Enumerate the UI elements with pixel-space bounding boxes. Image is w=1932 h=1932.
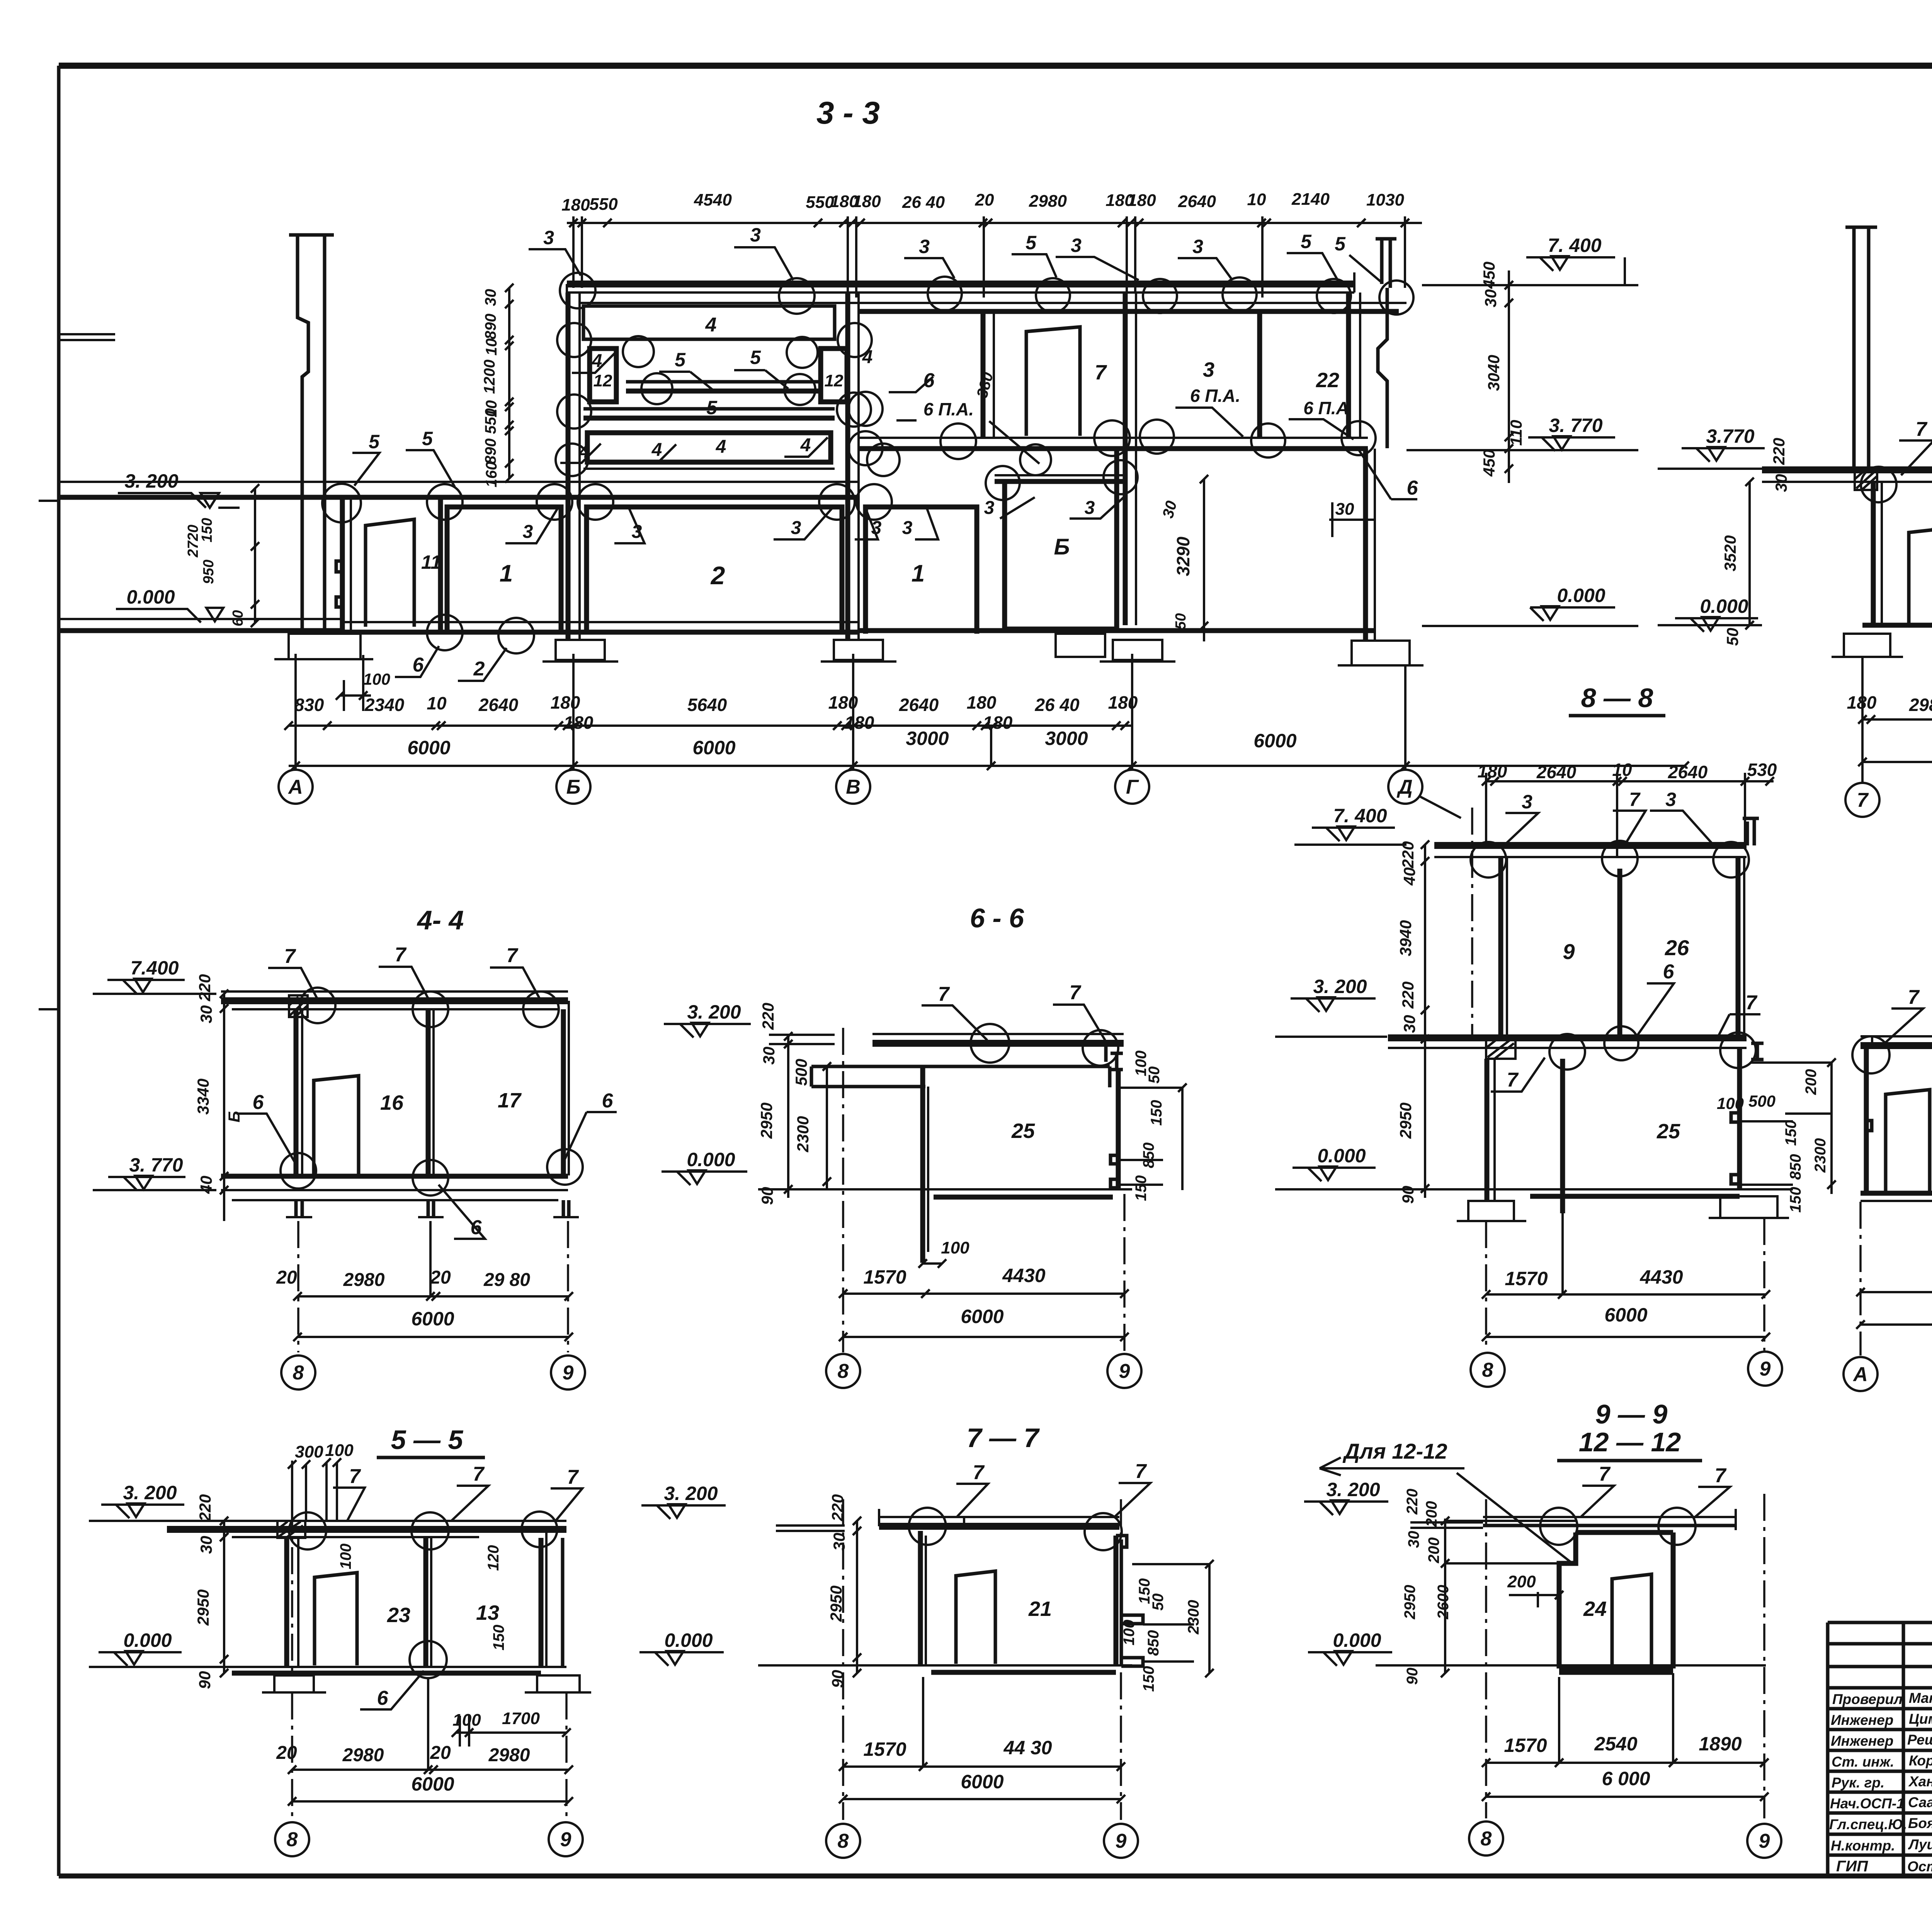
top slab [221,990,568,993]
room B walls [1005,449,1117,629]
svg-text:3000: 3000 [1045,728,1088,749]
right wall top step [1116,1536,1127,1561]
axis lines [1861,985,1932,1355]
floor line [167,1666,566,1668]
svg-text:20: 20 [276,1267,297,1288]
svg-text:30: 30 [1400,1015,1418,1033]
svg-text:25: 25 [1656,1120,1680,1143]
7 leader labels [1908,983,1932,1009]
svg-text:8: 8 [838,1360,849,1383]
svg-text:450: 450 [1480,449,1498,477]
svg-text:2: 2 [710,561,725,590]
svg-text:Б: Б [1054,534,1070,560]
floor [1861,1191,1932,1196]
svg-text:3940: 3940 [1396,920,1415,956]
svg-text:4- 4: 4- 4 [417,905,464,935]
svg-text:Инженер: Инженер [1831,1712,1893,1728]
B axis column [566,293,571,640]
svg-text:20: 20 [430,1743,451,1763]
footing 8 [1457,1201,1526,1221]
svg-text:ГИП: ГИП [1836,1858,1868,1875]
svg-text:5: 5 [750,347,761,368]
svg-text:7: 7 [1916,418,1928,440]
svg-text:90: 90 [1404,1668,1421,1685]
svg-text:2600: 2600 [1435,1585,1452,1620]
svg-text:90: 90 [758,1187,776,1205]
svg-text:7: 7 [567,1466,579,1488]
axis lines [292,1692,566,1820]
axis circles 8 9 [281,1355,585,1389]
left dim stack lower [1745,478,1754,629]
beam ledge [811,1043,1110,1087]
svg-text:6000: 6000 [961,1771,1003,1793]
wall between 11 and 1 [438,497,443,631]
room 25 left wall [920,1066,925,1263]
door room 16 [314,1076,359,1174]
svg-text:100: 100 [325,1441,354,1460]
top dim extension lines [573,216,1405,298]
bottom dim row 1 line [289,724,1132,727]
left dim stack [784,1032,831,1198]
svg-text:6: 6 [602,1090,614,1112]
floor slab [221,1174,568,1179]
svg-text:Саакьянц: Саакьянц [1908,1794,1932,1810]
3.770 slab right part [860,437,1368,439]
column stubs below floor [296,1200,569,1216]
wall left of room 7 [981,311,986,437]
svg-text:Коротенко: Коротенко [1909,1753,1932,1769]
svg-text:Луценко: Луценко [1908,1837,1932,1852]
svg-text:7: 7 [473,1463,485,1485]
top slab [872,1033,1124,1035]
svg-text:3: 3 [1522,791,1532,813]
top dim ticks [569,219,1409,227]
svg-text:29 80: 29 80 [483,1270,530,1290]
svg-text:1: 1 [500,560,513,587]
slab circles [971,1024,1118,1066]
vertical dim 3290 [1200,475,1208,641]
plank 5 lower [583,407,835,411]
axis circles 8 9 [826,1354,1141,1388]
svg-text:Инженер: Инженер [1831,1733,1893,1749]
svg-text:4: 4 [705,314,717,336]
slab circles [909,1508,1122,1550]
svg-text:0.000: 0.000 [1557,585,1605,606]
svg-text:850: 850 [1145,1630,1162,1656]
svg-text:7: 7 [938,983,950,1005]
svg-text:180: 180 [852,192,881,211]
svg-text:3. 200: 3. 200 [1313,976,1367,997]
svg-text:26 40: 26 40 [902,193,945,212]
hatched block [289,995,308,1017]
svg-text:6 - 6: 6 - 6 [970,903,1024,933]
footing room B right [1056,634,1105,657]
door room 23 [315,1573,357,1665]
svg-text:24: 24 [1583,1597,1607,1621]
slab circles [1549,1026,1756,1070]
svg-text:Макарова: Макарова [1909,1690,1932,1706]
svg-text:2980: 2980 [488,1745,530,1765]
lower rooms walls [1871,482,1876,625]
rooms walls [291,1461,293,1673]
svg-text:6000: 6000 [411,1308,454,1330]
partition box room 2 [587,507,842,634]
3 7 3 labels top [1522,789,1676,813]
roof parapet right [1376,239,1396,288]
band 4 lower [587,433,831,462]
fold mark left lower [39,1008,59,1010]
svg-text:3290: 3290 [1173,536,1193,576]
svg-text:7. 400: 7. 400 [1548,235,1601,256]
svg-text:3 - 3: 3 - 3 [816,95,880,131]
svg-text:7: 7 [1599,1463,1611,1485]
hatched pier axis 8 [1486,1038,1515,1059]
svg-text:90: 90 [196,1671,214,1689]
svg-text:Б: Б [225,1111,243,1122]
slab junction circles right part [849,392,1376,465]
svg-text:2640: 2640 [1668,762,1708,782]
A exterior wall [340,497,345,630]
svg-text:3. 770: 3. 770 [129,1154,183,1176]
doors [1886,1090,1930,1192]
svg-text:30: 30 [830,1533,848,1551]
svg-text:100: 100 [1717,1094,1744,1112]
svg-text:50: 50 [1150,1594,1167,1611]
svg-text:1: 1 [912,560,925,587]
door room 21 [956,1571,995,1664]
3.200 slab [1388,1034,1747,1041]
svg-text:150: 150 [199,518,215,542]
svg-text:3: 3 [1071,235,1082,256]
0.000 floor line right part [860,628,1376,633]
left dim stack [220,990,228,1221]
svg-text:3: 3 [919,236,930,257]
12 box right [821,349,847,402]
room 25 right wall steps [1731,1113,1740,1184]
footing G [1100,640,1175,662]
svg-text:180: 180 [1128,191,1156,210]
vertical dim stack left of B axis [508,288,510,478]
G axis column upper [1123,293,1128,625]
footing D [1338,641,1423,665]
svg-text:180: 180 [967,692,997,713]
8 axis column lower [1485,1059,1490,1200]
svg-text:2140: 2140 [1291,190,1330,209]
room walls [294,1009,299,1175]
svg-text:0.000: 0.000 [126,586,175,608]
axis circles A B V [1844,1357,1932,1393]
room walls [1864,1046,1869,1192]
bottom line of band zone [583,468,835,470]
svg-text:6: 6 [1663,961,1675,983]
D axis circle above [1471,808,1473,1036]
footing A [274,634,373,659]
svg-text:3. 200: 3. 200 [124,470,178,492]
svg-text:0.000: 0.000 [1333,1629,1381,1651]
slab circles [1852,1036,1932,1083]
svg-text:В: В [846,776,861,798]
svg-text:12: 12 [825,371,844,390]
svg-text:200: 200 [1425,1537,1442,1564]
svg-text:6000: 6000 [411,1773,454,1795]
svg-text:180: 180 [561,196,590,214]
svg-text:200: 200 [1423,1501,1440,1527]
fold mark left upper [39,500,59,502]
svg-text:10: 10 [1612,760,1632,780]
svg-text:6 П.А.: 6 П.А. [923,399,974,419]
svg-text:3000: 3000 [906,728,949,749]
signature table texts [1829,1690,1932,1875]
svg-text:3: 3 [543,227,554,248]
footings [262,1675,326,1692]
tall column axis 7 [1845,227,1877,469]
svg-text:30: 30 [1335,500,1354,519]
roof detail circles [560,273,1413,315]
axis extension lines [296,654,1405,769]
top slab [1483,1516,1736,1518]
svg-text:3340: 3340 [194,1078,212,1114]
svg-text:9: 9 [1116,1830,1127,1852]
svg-text:0.000: 0.000 [1317,1145,1366,1167]
svg-text:8: 8 [293,1362,304,1384]
lower room 25 [1560,1059,1565,1213]
svg-text:2300: 2300 [1185,1600,1202,1635]
axis circles 8 9 bottom [826,1824,1138,1858]
svg-text:500: 500 [1748,1092,1776,1110]
svg-text:5: 5 [369,431,380,452]
svg-text:3040: 3040 [1485,355,1503,391]
mid slab circles [1861,467,1932,504]
top slab left stub [769,1035,835,1044]
svg-text:5 — 5: 5 — 5 [391,1425,464,1455]
svg-text:2950: 2950 [757,1102,776,1139]
svg-text:6000: 6000 [407,737,450,759]
svg-text:4430: 4430 [1002,1265,1045,1286]
svg-text:7: 7 [973,1461,985,1484]
svg-text:3: 3 [1203,358,1214,381]
svg-text:160: 160 [483,462,500,488]
svg-text:5: 5 [1301,231,1312,252]
svg-text:6000: 6000 [961,1306,1003,1327]
svg-text:5: 5 [1026,232,1037,253]
footing V [821,640,896,662]
svg-text:6 П.А.: 6 П.А. [1190,386,1240,406]
floor line [1862,623,1932,628]
svg-text:9 — 9: 9 — 9 [1595,1399,1668,1429]
svg-text:1570: 1570 [1504,1735,1547,1756]
svg-text:9: 9 [1119,1360,1130,1383]
svg-text:150: 150 [1787,1187,1804,1213]
svg-text:220: 220 [1770,438,1788,465]
hatched block [277,1521,305,1538]
svg-text:Проверил: Проверил [1832,1691,1903,1707]
svg-text:3: 3 [1665,789,1676,810]
right side step dims [1121,1615,1143,1666]
svg-text:Г: Г [1126,776,1139,798]
top dim texts [1478,760,1777,782]
floor line [758,1664,1132,1667]
slab circles [1540,1508,1696,1545]
svg-text:100: 100 [452,1711,481,1730]
svg-text:100: 100 [337,1544,354,1570]
svg-text:9: 9 [1759,1830,1770,1852]
bottom dim row 1 texts [294,692,1138,733]
svg-text:7: 7 [1135,1460,1147,1483]
svg-text:7 — 7: 7 — 7 [967,1423,1040,1453]
svg-text:1570: 1570 [863,1266,906,1288]
svg-text:21: 21 [1028,1597,1052,1621]
svg-text:180: 180 [1478,761,1507,781]
svg-text:220: 220 [759,1003,777,1030]
svg-text:3: 3 [523,522,533,542]
D exterior wall profile [1378,288,1387,448]
slab junction circles [322,484,892,522]
svg-text:850: 850 [1787,1154,1804,1180]
svg-text:Д: Д [1396,776,1413,798]
svg-text:Решетникова: Решетникова [1907,1732,1932,1748]
svg-text:550: 550 [589,195,618,214]
svg-text:3. 200: 3. 200 [1326,1479,1380,1500]
svg-text:5: 5 [422,428,433,449]
title block outer [1828,1622,1932,1876]
svg-text:А: А [1852,1363,1868,1386]
svg-text:2950: 2950 [194,1589,212,1626]
svg-text:7: 7 [1629,789,1641,810]
svg-text:850: 850 [1140,1143,1157,1168]
svg-text:9: 9 [1760,1358,1771,1380]
roof slab [1434,842,1747,849]
svg-text:40: 40 [197,1176,215,1194]
left vertical dims 2720 etc [185,518,246,626]
svg-text:10: 10 [1247,190,1266,209]
svg-text:50: 50 [1723,628,1742,646]
svg-text:200: 200 [1803,1069,1820,1095]
plank 5 upper [626,380,819,384]
svg-text:3. 200: 3. 200 [687,1001,741,1023]
leader lines for roof labels [529,247,1382,283]
svg-text:8: 8 [1481,1828,1492,1850]
wall notch dims 200 [1401,1489,1452,1685]
svg-text:530: 530 [1747,760,1777,780]
svg-text:450: 450 [1480,262,1498,289]
svg-text:2640: 2640 [478,695,519,715]
top slab [1861,1035,1932,1037]
svg-text:1200: 1200 [481,360,498,394]
7 leader labels [938,981,1082,1005]
svg-text:20: 20 [276,1743,297,1763]
door room 24 [1612,1574,1651,1667]
bottom dims row1 [1504,1733,1742,1756]
svg-text:110: 110 [1507,420,1525,446]
svg-text:8: 8 [1482,1359,1493,1381]
svg-text:120: 120 [485,1545,502,1571]
circles at room B corners [986,444,1138,500]
axis circles 8 9 [1471,1352,1782,1387]
svg-text:50: 50 [1146,1066,1163,1084]
svg-text:2980: 2980 [1029,192,1067,211]
svg-text:5: 5 [1335,233,1346,255]
floor line [758,1188,1132,1190]
svg-text:3: 3 [750,224,761,246]
svg-text:7: 7 [349,1465,361,1488]
top slab [167,1520,566,1522]
V axis column [845,293,850,640]
door room 11 [366,519,414,627]
svg-text:7.400: 7.400 [130,957,179,979]
svg-text:0.000: 0.000 [123,1629,172,1651]
svg-text:Н.контр.: Н.контр. [1831,1838,1895,1854]
svg-text:220: 220 [196,1494,214,1522]
svg-text:7: 7 [1908,986,1920,1009]
small detail circles near 12 boxes [556,323,900,476]
svg-text:2980: 2980 [1909,695,1932,715]
small rotated dims [337,1544,507,1651]
footing 7 [1832,634,1903,657]
room 21 walls [918,1531,923,1665]
svg-text:6000: 6000 [692,737,735,759]
svg-text:2980: 2980 [342,1745,384,1765]
svg-text:5: 5 [675,349,686,371]
svg-text:Осташевский: Осташевский [1907,1859,1932,1874]
svg-text:Для 12-12: Для 12-12 [1342,1439,1447,1463]
svg-text:8: 8 [838,1830,849,1852]
D axis column lower [1363,449,1368,641]
svg-text:100: 100 [941,1238,969,1257]
svg-text:А: А [287,776,303,798]
svg-text:Рук. гр.: Рук. гр. [1832,1775,1884,1791]
svg-text:17: 17 [498,1089,522,1112]
svg-text:3. 200: 3. 200 [123,1482,177,1503]
right small dims [1782,1069,1829,1213]
left tall column axis A [289,235,334,634]
svg-text:950: 950 [201,560,217,584]
svg-text:2980: 2980 [343,1270,385,1290]
axis circles A B V G D [279,770,1422,804]
bottom dim row 2 line [289,765,1685,767]
short lines near frame left [59,334,115,340]
partition box room 1 right [866,507,977,634]
7 leader labels [284,944,519,968]
svg-text:30: 30 [482,289,499,306]
top dimension chain texts [561,190,1404,214]
svg-text:Б: Б [566,776,581,798]
svg-text:12 — 12: 12 — 12 [1579,1427,1681,1457]
axis circles 8 9 bottom [1469,1821,1781,1858]
roof circles [1471,841,1749,878]
upper rooms walls [1498,857,1503,1036]
band 4 upper between B and V [583,306,835,339]
bottom dim row1 texts [1847,692,1932,715]
slab circles [300,988,559,1027]
door room 18 [1909,528,1932,623]
svg-text:3. 200: 3. 200 [664,1483,718,1504]
svg-text:2300: 2300 [1812,1138,1829,1173]
svg-text:3. 770: 3. 770 [1549,415,1602,436]
12 box left [590,349,616,402]
svg-text:6: 6 [377,1687,389,1709]
svg-text:4: 4 [716,437,726,457]
svg-text:Ст. инж.: Ст. инж. [1832,1754,1894,1770]
svg-text:4430: 4430 [1639,1266,1683,1288]
svg-text:3: 3 [902,518,913,538]
svg-text:220: 220 [1404,1489,1421,1515]
svg-text:9: 9 [560,1828,571,1851]
axis lines [1486,1494,1764,1818]
ground floor slab lines [59,618,342,620]
svg-text:30: 30 [197,1536,215,1554]
svg-text:2640: 2640 [1178,192,1216,211]
floor line [1388,1188,1793,1190]
